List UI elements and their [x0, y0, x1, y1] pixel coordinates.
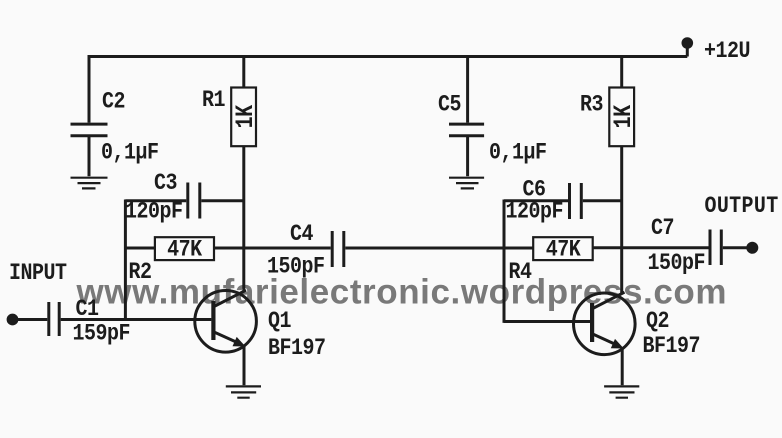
wire 47K right stage1 — [214, 247, 244, 250]
wire C4 to Q2 base — [504, 320, 590, 323]
wire C3 left — [125, 199, 186, 202]
capacitor C4 — [332, 231, 344, 267]
resistor R1 — [231, 88, 256, 147]
wire input to C1 — [13, 318, 48, 321]
svg-text:+12U: +12U — [704, 38, 750, 65]
wire R3 to Q2 collector — [620, 146, 623, 293]
svg-text:120pF: 120pF — [506, 198, 563, 225]
wire Q2 emitter to ground — [621, 348, 624, 386]
svg-text:150pF: 150pF — [267, 253, 324, 280]
capacitor C7 — [710, 230, 721, 266]
wire C4 left — [244, 247, 331, 250]
wire 47K left stage2 — [504, 247, 533, 250]
svg-text:120pF: 120pF — [125, 198, 182, 225]
svg-text:R1: R1 — [202, 87, 225, 114]
wire C7 to output — [723, 246, 747, 249]
svg-text:0,1µF: 0,1µF — [101, 139, 158, 166]
capacitor C6 — [570, 183, 582, 219]
wire base branch stage1 — [124, 200, 127, 321]
wire C5 top — [466, 55, 469, 123]
node input terminal — [7, 314, 19, 326]
svg-text:Q2: Q2 — [646, 308, 669, 335]
wire C1 to Q1 base — [61, 318, 212, 321]
wire C4 right — [345, 247, 504, 250]
wire C6 right — [583, 199, 622, 202]
svg-text:C4: C4 — [290, 221, 313, 248]
svg-text:47K: 47K — [167, 236, 202, 263]
wire base branch stage2 — [503, 200, 506, 323]
svg-text:OUTPUT: OUTPUT — [705, 193, 779, 220]
capacitor C1 — [49, 302, 59, 336]
svg-text:1K: 1K — [609, 105, 638, 129]
svg-text:INPUT: INPUT — [9, 260, 67, 287]
wire R1 top — [242, 57, 245, 89]
svg-text:0,1µF: 0,1µF — [489, 139, 546, 166]
svg-text:R3: R3 — [580, 91, 603, 118]
resistor R3 — [609, 88, 634, 147]
wire 47K right stage2 to C7 — [593, 246, 709, 249]
svg-text:C2: C2 — [102, 88, 125, 115]
svg-text:1K: 1K — [231, 105, 260, 129]
wire 47K left stage1 — [125, 247, 154, 250]
ground C2 — [71, 178, 108, 189]
svg-text:R4: R4 — [509, 259, 532, 286]
svg-text:150pF: 150pF — [648, 250, 705, 277]
svg-text:BF197: BF197 — [268, 335, 325, 362]
ground C5 — [449, 178, 484, 189]
svg-text:Q1: Q1 — [268, 308, 291, 335]
wire C3 right — [201, 199, 244, 202]
svg-text:C7: C7 — [651, 215, 674, 242]
node +12V terminal — [686, 46, 689, 57]
resistor R4 47K — [533, 237, 593, 260]
svg-text:BF197: BF197 — [643, 333, 700, 360]
wire R1 to Q1 collector — [242, 146, 245, 292]
wire C2 top — [88, 55, 91, 123]
resistor R2 47K — [155, 237, 214, 260]
wire C2 bottom — [88, 137, 91, 176]
svg-text:47K: 47K — [546, 236, 581, 263]
transistor Q1 — [195, 290, 257, 352]
capacitor C2 — [71, 124, 108, 136]
svg-text:C3: C3 — [154, 170, 177, 197]
ground Q1 — [226, 386, 261, 397]
svg-text:R2: R2 — [129, 259, 152, 286]
wire Q1 emitter to ground — [243, 346, 246, 386]
wire C6 left — [504, 199, 568, 202]
svg-text:C5: C5 — [438, 91, 461, 118]
ground Q2 — [604, 386, 639, 397]
wire R3 top — [620, 57, 623, 89]
capacitor C3 — [188, 183, 200, 219]
wire C5 bottom — [466, 137, 469, 176]
transistor Q2 — [574, 292, 636, 354]
capacitor C5 — [449, 124, 484, 136]
wire +12V top rail — [89, 55, 687, 58]
node output terminal — [746, 242, 758, 254]
svg-text:159pF: 159pF — [73, 320, 130, 347]
